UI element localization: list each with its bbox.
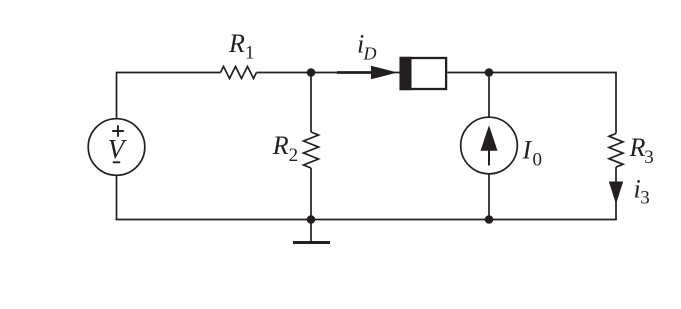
svg-text:0: 0 [533,150,543,171]
current source I0 [461,117,542,174]
svg-text:R: R [629,133,646,162]
node bottom-right of current source [485,215,494,224]
wire node to diode [311,72,400,74]
svg-text:R: R [272,131,289,160]
diode D1 (box symbol) [400,57,447,90]
svg-text:V: V [108,134,128,164]
current arrow i3 [609,175,650,209]
wire from V bottom [116,175,118,219]
current arrow iD [337,30,398,80]
resistor R1 [221,29,257,79]
node top-right [485,68,494,77]
ground [293,220,330,243]
wire R1 to node [257,72,312,74]
wire top-left [117,73,221,119]
svg-text:I: I [522,136,533,165]
svg-text:R: R [228,29,245,58]
svg-text:D: D [363,44,377,64]
voltage source V [88,119,145,176]
svg-text:3: 3 [640,188,650,209]
svg-text:2: 2 [289,145,299,166]
node bottom-middle [307,215,316,224]
resistor R2 [272,131,319,168]
node top-middle [307,68,316,77]
resistor R3 [609,133,654,168]
svg-text:3: 3 [644,147,654,168]
wire R2 top [310,73,312,133]
svg-text:1: 1 [245,43,255,64]
wire right rail bottom [615,167,617,219]
wire diode to top-right corner [447,72,617,74]
wire to current source top [488,73,490,118]
wire R2 bottom [310,168,312,220]
wire right rail top [615,73,617,134]
wire bottom rail [116,219,617,221]
wire current source bottom [488,174,490,220]
